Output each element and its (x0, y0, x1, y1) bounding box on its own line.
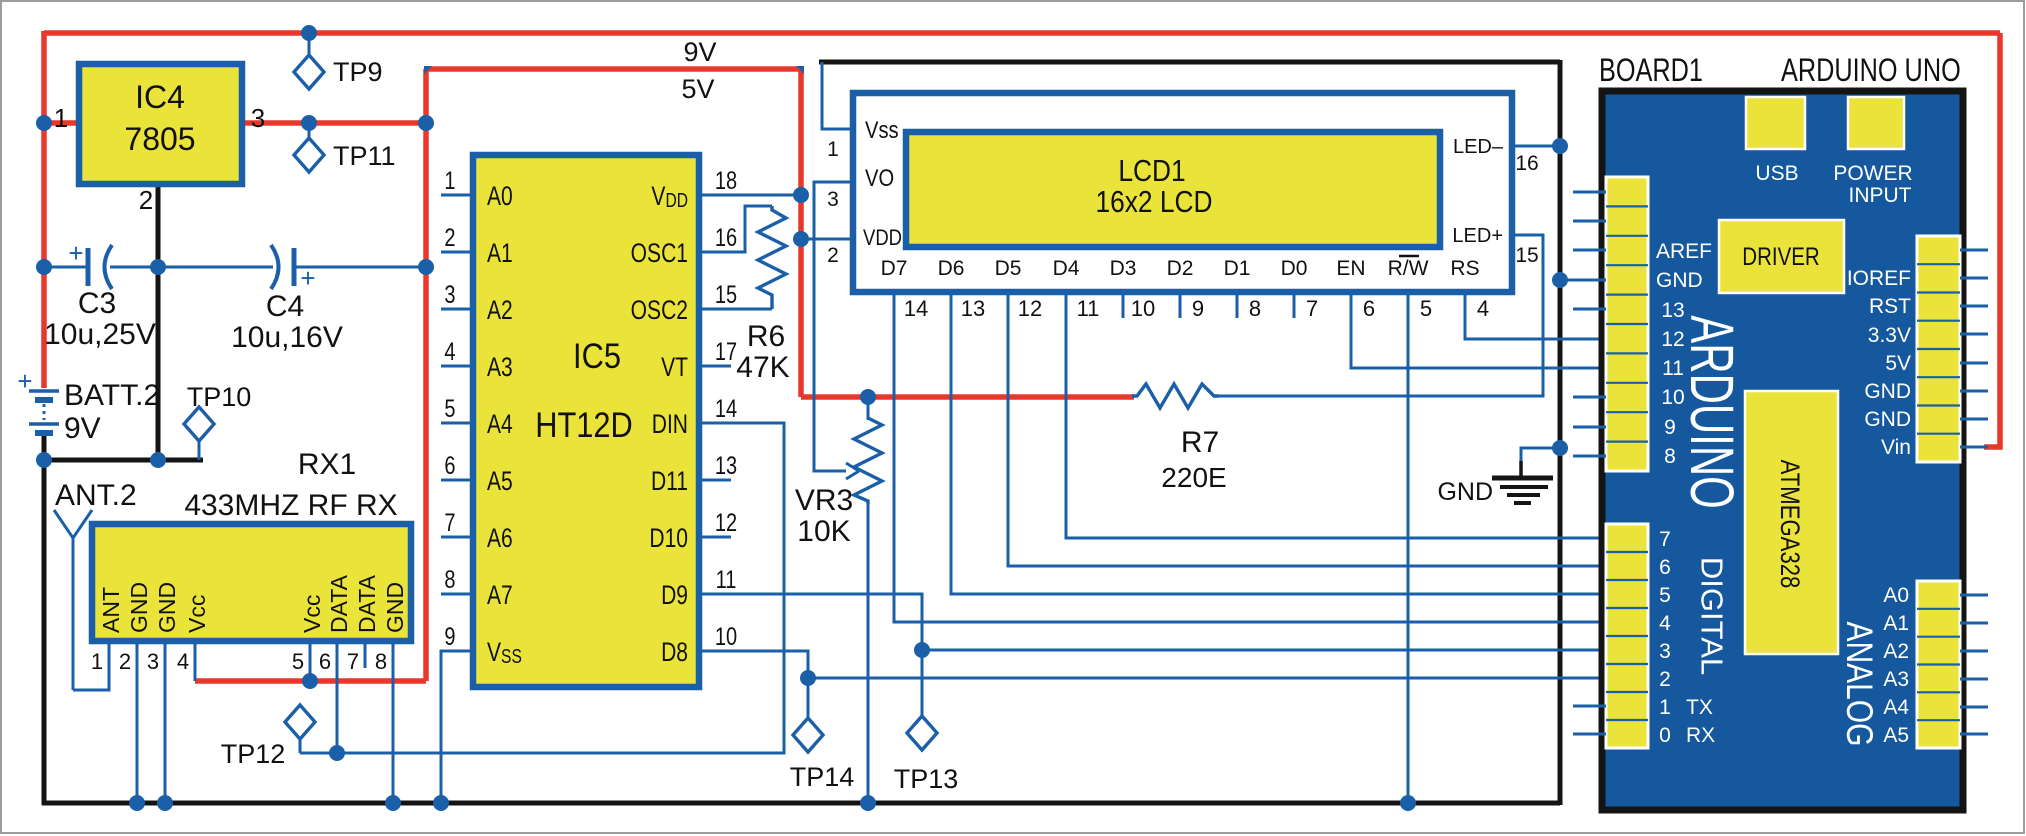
svg-text:EN: EN (1336, 257, 1365, 280)
wire RX1 pin4 vcc stub (194, 641, 197, 681)
testpoint TP11 (294, 126, 396, 172)
svg-text:A5: A5 (487, 467, 513, 497)
svg-text:Vin: Vin (1881, 436, 1911, 459)
capacitor C4 (231, 245, 343, 354)
svg-text:VDD: VDD (863, 227, 902, 251)
wire RX1 pin5 vcc stub (309, 641, 312, 681)
wire IC5 A4 stub (441, 422, 473, 425)
node TP9 junction (301, 25, 317, 41)
wire capacitor line middle (110, 266, 273, 269)
arduino header bottom-left (digital) (1606, 524, 1648, 748)
svg-text:6: 6 (444, 452, 455, 480)
svg-text:TP9: TP9 (333, 57, 383, 87)
svg-text:D4: D4 (1053, 257, 1080, 280)
svg-text:D11: D11 (651, 467, 688, 497)
svg-text:2: 2 (827, 244, 839, 267)
node arduino GND junction (1552, 272, 1568, 288)
arduino header top-left pin stubs (1560, 192, 1606, 456)
svg-text:13: 13 (715, 452, 737, 480)
svg-text:2: 2 (444, 224, 455, 252)
arduino header top-left labels (1656, 240, 1712, 468)
svg-text:11: 11 (1662, 357, 1684, 380)
node TP11 junction (301, 115, 317, 131)
node cap ground junction (150, 259, 166, 275)
svg-text:7: 7 (1659, 528, 1671, 551)
svg-text:7: 7 (347, 649, 359, 674)
svg-text:GND: GND (154, 582, 180, 633)
svg-text:BOARD1: BOARD1 (1599, 53, 1703, 89)
svg-text:A1: A1 (1883, 612, 1909, 635)
wire LCD RS to arduino pin12 (1465, 293, 1606, 339)
arduino header bottom-left pin stubs (1573, 706, 1606, 734)
svg-text:Vcc: Vcc (299, 595, 325, 633)
wire IC5 D11 stub (699, 479, 731, 482)
svg-text:6: 6 (1363, 296, 1375, 321)
svg-text:2: 2 (139, 185, 153, 215)
svg-text:16: 16 (1515, 152, 1538, 175)
svg-text:LED+: LED+ (1452, 225, 1503, 247)
node GND symbol junction (1552, 440, 1568, 456)
wire 9V rail top (44, 30, 2000, 36)
svg-text:0: 0 (1659, 724, 1671, 747)
wire IC4 pin2 ground drop (156, 184, 161, 460)
wire IC5 A5 stub (441, 479, 473, 482)
svg-text:VO: VO (865, 164, 894, 191)
antenna ANT.2 (54, 479, 137, 690)
svg-text:C3: C3 (78, 287, 116, 320)
arduino header bottom-right pin stubs (1960, 595, 1988, 734)
node LCD VDD junction (793, 231, 809, 247)
wire right ground drop (1558, 60, 1563, 805)
wire IC4 pin3 to 5V corner (240, 120, 426, 126)
svg-text:220E: 220E (1161, 462, 1226, 493)
svg-text:11: 11 (1077, 296, 1100, 321)
wire IC5 A6 stub (441, 536, 473, 539)
wire GND symbol tap (1521, 448, 1560, 464)
svg-text:TP14: TP14 (790, 762, 855, 792)
svg-text:GND: GND (1437, 478, 1493, 506)
node rail LCD RW (1400, 795, 1416, 811)
wire LCD D7 to arduino pin4 (894, 293, 1606, 622)
decoder IC5 HT12D (473, 155, 699, 687)
wire IC4 pin1 stub (44, 120, 80, 126)
arduino header top-right labels (1847, 267, 1911, 459)
svg-text:OSC1: OSC1 (631, 239, 688, 269)
wire battery minus horizontal (42, 458, 203, 463)
node TP12 junction (329, 745, 345, 761)
svg-text:VR3: VR3 (795, 484, 853, 517)
svg-text:D2: D2 (1167, 257, 1194, 280)
wire RX1 Vcc feed (195, 678, 426, 684)
arduino ATMEGA328 chip (1745, 391, 1838, 654)
arduino header top-left (1606, 177, 1648, 471)
node rail RX pin2 (129, 795, 145, 811)
svg-text:13: 13 (1661, 299, 1684, 322)
svg-text:GND: GND (126, 582, 152, 633)
svg-text:3: 3 (251, 103, 265, 133)
svg-text:R6: R6 (747, 320, 785, 353)
svg-text:ARDUINO: ARDUINO (1677, 315, 1745, 509)
wire battery minus drop left (42, 434, 47, 805)
IC5 pin numbers (444, 167, 737, 651)
arduino power input connector (1833, 97, 1912, 207)
wire RX1 pin3 ground (164, 641, 167, 803)
svg-text:10K: 10K (797, 515, 850, 548)
svg-text:7: 7 (444, 509, 455, 537)
battery BATT.2 (17, 366, 160, 445)
wire right drop to Vin (1984, 33, 2000, 447)
wire LCD D2 stub (1179, 293, 1182, 318)
wire RX1 pin8 ground (392, 641, 395, 803)
svg-text:16: 16 (715, 224, 737, 252)
wire capacitor line right (296, 266, 426, 269)
svg-text:BATT.2: BATT.2 (64, 379, 160, 412)
potentiometer VR3 10K (795, 397, 882, 548)
svg-text:4: 4 (444, 338, 455, 366)
svg-text:ATMEGA328: ATMEGA328 (1774, 460, 1804, 589)
wire left 9V drop to battery (41, 31, 47, 388)
node battery minus junction (36, 452, 52, 468)
svg-text:ARDUINO UNO: ARDUINO UNO (1781, 53, 1961, 89)
svg-text:10: 10 (1131, 296, 1155, 321)
svg-text:INPUT: INPUT (1849, 184, 1912, 207)
svg-text:D3: D3 (1110, 257, 1137, 280)
testpoint TP14 (790, 681, 855, 792)
wire IC5 D8 to arduino pin2 (699, 651, 1606, 678)
svg-text:8: 8 (444, 566, 455, 594)
svg-text:12: 12 (715, 509, 737, 537)
node C3 left junction (36, 259, 52, 275)
wire LCD D6 to arduino pin5 (951, 293, 1606, 594)
svg-text:Vcc: Vcc (184, 595, 210, 633)
testpoint TP12 (221, 705, 315, 769)
svg-text:4: 4 (177, 649, 189, 674)
svg-text:LED–: LED– (1453, 136, 1504, 158)
wire LCD VO to VR3 wiper (814, 182, 853, 471)
svg-text:DIN: DIN (652, 410, 688, 440)
node RX vcc junction (302, 673, 318, 689)
wire IC5 A0 stub (441, 194, 473, 197)
wire IC5 D9 to arduino pin3 (699, 594, 1606, 650)
node 5V corner junction (418, 115, 434, 131)
wire top ground run (LCD Vss to arduino) (819, 60, 1560, 65)
LCD pin labels right (1452, 136, 1503, 247)
ground symbol (1492, 461, 1553, 503)
svg-text:10: 10 (1661, 386, 1684, 409)
svg-text:DATA: DATA (326, 574, 352, 633)
svg-text:8: 8 (1249, 296, 1261, 321)
arduino USB connector (1746, 97, 1805, 185)
svg-text:A0: A0 (487, 182, 513, 212)
svg-text:9V: 9V (683, 37, 716, 67)
LCD module LCD1 (853, 93, 1512, 292)
node IC4 pin1 junction (36, 115, 52, 131)
testpoint TP13 (894, 653, 959, 794)
svg-text:A2: A2 (487, 296, 513, 326)
capacitor C3 (44, 238, 156, 351)
svg-text:1: 1 (1659, 696, 1671, 719)
svg-text:ANALOG: ANALOG (1838, 622, 1880, 747)
svg-text:ANT.2: ANT.2 (55, 479, 137, 512)
svg-text:7: 7 (1306, 296, 1318, 321)
svg-text:5: 5 (292, 649, 304, 674)
svg-text:RX1: RX1 (298, 448, 356, 481)
svg-text:9: 9 (444, 623, 455, 651)
LCD pin numbers left/right (827, 138, 1539, 267)
svg-text:10u,25V: 10u,25V (44, 318, 156, 351)
svg-text:TP10: TP10 (187, 382, 252, 412)
svg-text:HT12D: HT12D (535, 405, 633, 444)
svg-text:GND: GND (382, 582, 408, 633)
svg-text:5: 5 (444, 395, 455, 423)
wire IC5 OSC2 stub (699, 308, 772, 311)
svg-text:IOREF: IOREF (1847, 267, 1911, 290)
LCD bottom pin labels (881, 257, 1480, 280)
svg-text:D6: D6 (938, 257, 965, 280)
svg-text:3: 3 (1659, 640, 1671, 663)
node 5V corner notch left (424, 66, 432, 74)
wire IC5 A1 stub (441, 251, 473, 254)
svg-text:AREF: AREF (1656, 240, 1712, 263)
svg-text:A3: A3 (1883, 668, 1909, 691)
LCD RW overline (1399, 255, 1419, 258)
RF receiver module RX1 (92, 448, 411, 641)
svg-text:12: 12 (1018, 296, 1042, 321)
svg-text:5V: 5V (1885, 352, 1911, 375)
wire IC5 OSC1 to R6 (699, 206, 772, 252)
svg-text:11: 11 (716, 566, 737, 594)
svg-text:1: 1 (827, 138, 839, 161)
node LED- ground junction (1552, 138, 1568, 154)
svg-text:RS: RS (1450, 257, 1479, 280)
node rail RX pin8 (385, 795, 401, 811)
testpoint TP9 (294, 36, 383, 89)
svg-text:6: 6 (319, 649, 331, 674)
wire VR3 bottom to ground rail (867, 502, 870, 803)
svg-text:RX: RX (1686, 724, 1715, 747)
svg-text:6: 6 (1659, 556, 1671, 579)
wire IC5 Vss stub and ground drop (441, 651, 473, 803)
RX1 pin labels rotated (98, 574, 408, 633)
resistor R7 220E (1132, 384, 1227, 493)
svg-text:4: 4 (1477, 296, 1489, 321)
svg-text:5V: 5V (681, 74, 714, 104)
wire 5V rail (426, 66, 801, 72)
svg-text:RST: RST (1869, 295, 1911, 318)
wire LCD EN to arduino pin11 (1351, 293, 1606, 368)
LCD bottom pin numbers (904, 296, 1489, 321)
wire LCD RW to ground rail (1407, 293, 1410, 803)
svg-text:GND: GND (1864, 408, 1911, 431)
svg-text:GND: GND (1656, 269, 1703, 292)
svg-text:A4: A4 (1883, 696, 1909, 719)
wire IC5 DIN to TP12 line (300, 423, 784, 753)
svg-text:+: + (300, 263, 315, 293)
wire IC5 VDD to 5V (699, 194, 801, 197)
svg-text:3: 3 (444, 281, 455, 309)
svg-text:13: 13 (961, 296, 985, 321)
svg-text:9: 9 (1192, 296, 1204, 321)
svg-text:12: 12 (1661, 328, 1684, 351)
svg-text:OSC2: OSC2 (631, 296, 688, 326)
svg-text:14: 14 (715, 395, 737, 423)
arduino header bottom-left labels (1659, 528, 1715, 747)
svg-text:C4: C4 (266, 290, 304, 323)
svg-text:15: 15 (1515, 244, 1538, 267)
svg-text:9V: 9V (64, 412, 101, 445)
svg-text:3.3V: 3.3V (1868, 324, 1911, 347)
svg-text:5: 5 (1420, 296, 1432, 321)
wire RX1 pin6 data drop (336, 641, 339, 753)
RX1 pin numbers (91, 649, 387, 674)
svg-text:DATA: DATA (354, 574, 380, 633)
node C4 right junction (418, 259, 434, 275)
svg-text:IC5: IC5 (573, 336, 621, 375)
svg-text:USB: USB (1755, 162, 1798, 185)
svg-text:Vss: Vss (865, 116, 899, 143)
svg-text:8: 8 (375, 649, 387, 674)
wire LCD D1 stub (1236, 293, 1239, 318)
resistor R6 47K (736, 206, 789, 384)
svg-text:3: 3 (827, 188, 839, 211)
svg-text:IC4: IC4 (135, 79, 185, 115)
svg-text:DIGITAL: DIGITAL (1695, 557, 1730, 675)
wire 5V vertical at x426 down to RX vcc (423, 69, 429, 681)
node VR3 top junction (860, 389, 876, 405)
svg-text:4: 4 (1659, 612, 1671, 635)
svg-text:1: 1 (54, 103, 68, 133)
regulator IC4 7805 (54, 64, 265, 215)
svg-text:R7: R7 (1181, 426, 1219, 459)
wire LCD Vss to ground (822, 62, 853, 129)
svg-text:7805: 7805 (124, 121, 195, 157)
wire IC5 D10 stub (699, 536, 731, 539)
svg-text:17: 17 (715, 338, 737, 366)
wire LCD D4 to arduino pin7 (1066, 293, 1606, 538)
wire bottom ground rail (42, 801, 1560, 806)
arduino header bottom-right (analog) (1917, 581, 1960, 748)
node rail RX pin3 (157, 795, 173, 811)
svg-text:47K: 47K (736, 351, 789, 384)
svg-text:LCD1: LCD1 (1118, 154, 1185, 188)
wire capacitor line C3 left (44, 266, 86, 269)
wire IC5 A3 stub (441, 365, 473, 368)
svg-text:16x2 LCD: 16x2 LCD (1095, 185, 1212, 219)
node TP13 junction (914, 642, 930, 658)
svg-text:A2: A2 (1883, 640, 1909, 663)
svg-text:2: 2 (119, 649, 131, 674)
wire LCD VDD to 5V (801, 238, 853, 241)
svg-text:A4: A4 (487, 410, 513, 440)
svg-text:TP12: TP12 (221, 739, 286, 769)
arduino header top-right pin stubs (1960, 250, 1988, 447)
svg-text:1: 1 (91, 649, 103, 674)
svg-text:TP13: TP13 (894, 764, 959, 794)
svg-text:15: 15 (715, 281, 737, 309)
wire IC5 A2 stub (441, 308, 473, 311)
svg-text:9: 9 (1664, 416, 1676, 439)
node TP14 junction (800, 670, 816, 686)
svg-text:TX: TX (1686, 696, 1713, 719)
node rail IC5 Vss (433, 795, 449, 811)
wire IC5 A7 stub (441, 593, 473, 596)
svg-text:VT: VT (661, 353, 688, 383)
node IC5 VDD junction (793, 187, 809, 203)
node 5V corner notch right (796, 66, 804, 74)
svg-text:8: 8 (1664, 445, 1676, 468)
node IC4 pin2 ground junction (150, 452, 166, 468)
svg-text:R/W: R/W (1388, 257, 1429, 280)
node rail VR3 (860, 795, 876, 811)
LCD pin labels left (863, 116, 902, 250)
svg-text:A1: A1 (487, 239, 513, 269)
arduino header top-right (1917, 236, 1960, 462)
arduino driver chip (1719, 220, 1844, 293)
svg-text:A6: A6 (487, 524, 513, 554)
wire 5V to R7 (801, 394, 1134, 400)
svg-text:433MHZ RF RX: 433MHZ RF RX (184, 489, 397, 522)
svg-text:A7: A7 (487, 581, 513, 611)
svg-text:D5: D5 (995, 257, 1022, 280)
svg-text:GND: GND (1864, 380, 1911, 403)
testpoint TP10 (184, 382, 251, 460)
wire 5V drop at x801 (798, 69, 804, 397)
svg-text:D8: D8 (661, 638, 688, 668)
svg-text:D0: D0 (1281, 257, 1308, 280)
svg-text:TP11: TP11 (333, 141, 396, 171)
svg-text:A0: A0 (1883, 584, 1909, 607)
svg-text:D7: D7 (881, 257, 908, 280)
svg-text:POWER: POWER (1833, 162, 1912, 185)
svg-text:ANT: ANT (98, 587, 124, 633)
svg-text:14: 14 (904, 296, 928, 321)
svg-text:2: 2 (1659, 668, 1671, 691)
IC5 pin labels (487, 182, 688, 668)
svg-text:10u,16V: 10u,16V (231, 321, 343, 354)
arduino board BOARD1 (1599, 53, 1963, 810)
wire RX1 pin7 stub (364, 641, 367, 668)
svg-text:D9: D9 (661, 581, 688, 611)
svg-text:1: 1 (444, 167, 455, 195)
wire LCD LED- to ground (1512, 145, 1560, 148)
svg-text:A3: A3 (487, 353, 513, 383)
svg-text:5: 5 (1659, 584, 1671, 607)
svg-text:18: 18 (715, 167, 737, 195)
svg-text:+: + (68, 238, 83, 268)
wire RX1 pin2 ground (136, 641, 139, 803)
wire LCD D3 stub (1122, 293, 1125, 318)
svg-text:3: 3 (147, 649, 159, 674)
wire LCD D5 to arduino pin6 (1008, 293, 1606, 566)
wire LCD LED+ to R7 (1219, 235, 1543, 396)
wire LCD D0 stub (1293, 293, 1296, 318)
svg-text:D1: D1 (1224, 257, 1251, 280)
arduino header bottom-right labels (1883, 584, 1909, 747)
svg-text:D10: D10 (649, 524, 688, 554)
wire IC5 VT stub (699, 365, 731, 368)
wire RX1 pin1 to antenna (73, 641, 109, 690)
svg-text:A5: A5 (1883, 724, 1909, 747)
svg-text:10: 10 (715, 623, 737, 651)
svg-text:DRIVER: DRIVER (1742, 242, 1819, 270)
